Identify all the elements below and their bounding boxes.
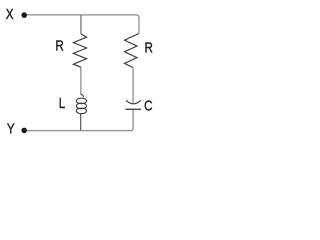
wire: bottom rail from Y to capacitor branch [27,129,133,131]
inductor L (3 loops) [76,95,86,114]
node Y terminal dot [21,128,27,134]
wire: lead from right resistor to capacitor C [132,68,134,104]
svg-text:L: L [59,95,66,112]
svg-text:Y: Y [7,120,15,137]
wire: left branch stub from top rail to resistor R (left) [80,15,82,34]
resistor R (right branch) [125,34,139,68]
node X terminal dot [21,12,27,18]
wire: lead from capacitor to bottom rail [132,110,134,129]
svg-text:C: C [144,97,153,114]
capacitor C straight plate [126,108,142,110]
svg-text:X: X [6,6,14,23]
capacitor C curved plate [126,100,140,103]
resistor R (left branch) [73,34,86,67]
wire: top rail from X to top-right corner, down to right resistor [27,15,139,34]
svg-text:R: R [55,37,64,54]
wire: lead between left resistor and inductor L [80,67,82,95]
svg-text:R: R [145,39,154,56]
wire: lead from inductor to bottom rail [80,114,82,131]
